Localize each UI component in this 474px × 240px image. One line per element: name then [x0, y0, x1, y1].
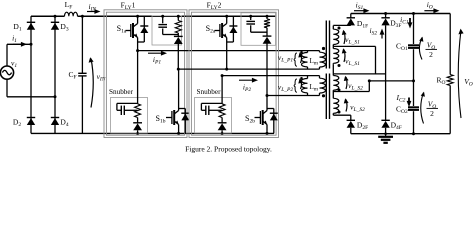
core T1	[326, 21, 329, 69]
arrow iP2	[239, 78, 258, 83]
diode D3	[51, 22, 59, 30]
diode D2	[27, 118, 35, 126]
label iP1	[153, 55, 161, 66]
node dot midpoint cap	[412, 79, 415, 82]
box FLY2 outer	[189, 10, 279, 138]
diode snubber1t	[174, 36, 183, 44]
node dot W3 polarity	[338, 89, 341, 92]
transistor S1a	[126, 16, 138, 50]
wire A S1a emitter to primary1	[138, 50, 320, 52]
label is1	[356, 1, 364, 12]
wire bridge left column	[30, 16, 32, 133]
node dot ground	[384, 132, 387, 135]
inductor LF	[65, 12, 78, 16]
inductor Lm1	[302, 51, 308, 70]
wire bottom rail	[31, 132, 274, 135]
label D4	[60, 118, 68, 129]
node dot Lm1 top	[300, 51, 303, 54]
label iC1	[400, 15, 409, 26]
label FLY1	[121, 1, 136, 12]
box snubber FLY2 top	[241, 13, 276, 46]
label Lm1	[310, 57, 319, 67]
label RO	[437, 76, 446, 87]
label D2	[13, 118, 21, 129]
arc vL_S1 top	[342, 30, 347, 44]
arc vL_S2 bot	[344, 98, 349, 111]
label D4F	[391, 120, 402, 131]
label S1a	[117, 24, 127, 35]
label S1b	[156, 114, 166, 125]
box snubber FLY1 top	[152, 16, 182, 45]
capacitor snubber2b	[201, 103, 222, 115]
capacitor snubber1t	[158, 15, 167, 35]
winding P2	[320, 76, 326, 96]
node dot P1 polarity	[322, 47, 325, 50]
diode D1	[27, 22, 35, 30]
label Vo2 bottom	[427, 100, 439, 119]
arrow is2	[380, 29, 385, 39]
label D3F	[390, 18, 401, 29]
caption	[185, 144, 272, 153]
box FLY1 inner	[106, 12, 184, 135]
wire CO2 column	[413, 81, 415, 134]
node dot CO2 bottom	[412, 132, 415, 135]
diode S1a antiparallel	[138, 16, 149, 42]
label VO	[464, 77, 473, 88]
capacitor snubber1b	[117, 103, 138, 115]
winding W2 vL_S1	[333, 46, 339, 64]
arc vL_P2	[298, 78, 303, 89]
label i1	[12, 34, 17, 45]
node dot rail at D3	[54, 15, 57, 18]
wire D primary2 bottom	[267, 95, 320, 97]
label IC2	[396, 93, 406, 104]
node dot Lm2 top	[300, 77, 303, 80]
ground	[378, 134, 393, 143]
label is2	[370, 26, 378, 37]
svg-text:2: 2	[430, 109, 434, 118]
arrow iC1	[408, 18, 413, 29]
resistor RO	[447, 75, 453, 86]
node dot S2a emitter wireB	[225, 68, 228, 71]
arrow i1	[13, 42, 27, 47]
box snubber FLY1 bottom	[111, 98, 148, 134]
node dot W1 polarity	[338, 27, 341, 30]
arc VO	[458, 29, 463, 118]
resistor snubber2b	[219, 104, 225, 118]
wire W1W2 tap	[333, 46, 375, 74]
diode S1b antiparallel	[179, 109, 190, 134]
label CO2	[396, 104, 408, 115]
svg-text:2: 2	[429, 50, 433, 59]
arc Vo2 top	[419, 37, 423, 60]
node dot rail at CF	[81, 15, 84, 18]
diode snubber1b	[133, 123, 142, 131]
wire snubber1b center column	[137, 51, 139, 134]
node dot S2a collector rail	[225, 15, 228, 18]
resistor snubber2t	[264, 15, 270, 36]
diode D3F	[381, 14, 389, 26]
wire snubber2b center column	[221, 76, 223, 134]
label vL_S1 bot	[345, 57, 360, 68]
ac source v1	[0, 66, 13, 79]
wire midpoint	[369, 80, 413, 82]
core T2	[326, 74, 329, 120]
node dot S1a collector rail	[136, 15, 139, 18]
label vIN	[97, 72, 106, 83]
wire CO1 column	[413, 14, 415, 81]
label Lm2	[310, 83, 319, 93]
label Snubber2	[197, 88, 222, 96]
wire output bottom	[351, 86, 450, 134]
svg-text:Snubber: Snubber	[109, 88, 134, 96]
wire snubber1t diode to wireB	[177, 44, 179, 70]
wire W3W4 tap to midpoint	[333, 81, 369, 92]
inductor Lm2	[302, 76, 308, 96]
wire top rail	[31, 15, 276, 17]
arrow iP1	[148, 51, 167, 56]
winding W3 vL_S2	[333, 74, 339, 92]
node dot W2 polarity	[338, 64, 341, 67]
arc vL_S2 top	[344, 76, 349, 89]
resistor snubber1t	[175, 15, 181, 37]
wire W4 bottom to D2F	[333, 115, 351, 120]
diode snubber2t	[263, 36, 272, 44]
label CO1	[396, 41, 408, 52]
node dot P2 polarity	[322, 94, 325, 97]
label iP2	[243, 83, 251, 94]
wire C primary2 top	[222, 75, 319, 77]
diode D4F	[381, 120, 389, 133]
label io	[427, 0, 433, 11]
label LF	[65, 0, 73, 11]
diode S2b antiparallel	[267, 109, 278, 134]
node dot wireD left	[266, 94, 269, 97]
node dot wireC left	[221, 74, 224, 77]
wire snubber2t link	[251, 31, 267, 33]
label D2F	[357, 120, 368, 131]
label S2a	[206, 24, 216, 35]
svg-text:Snubber: Snubber	[197, 88, 222, 96]
label D1	[13, 22, 21, 33]
wire ac top to node A	[7, 44, 31, 66]
winding W4 vL_S2	[333, 92, 339, 116]
label vL_P1	[278, 53, 294, 64]
node dot CO1 rail	[412, 12, 415, 15]
brace vL_P2	[294, 79, 297, 92]
box FLY1 outer	[104, 10, 187, 138]
transistor S2a	[215, 16, 227, 69]
arrow io	[424, 8, 439, 13]
transistor S1b	[166, 69, 179, 133]
wire B primary1 bottom	[178, 68, 319, 70]
label vL_S2 bot	[350, 103, 365, 114]
label Vo2 top	[426, 41, 438, 60]
winding P1	[320, 51, 326, 70]
label vL_S1 top	[345, 35, 360, 46]
label vL_P2	[278, 83, 294, 94]
diode D2F	[347, 120, 355, 133]
capacitor CF	[78, 73, 86, 76]
node dot S1a emitter wireA	[136, 49, 139, 52]
node dot midpoint left	[368, 79, 371, 82]
diode S2a antiparallel	[227, 16, 238, 42]
capacitor snubber2t	[246, 15, 255, 33]
box snubber FLY2 bottom	[195, 98, 232, 134]
wire W1 top to D1F	[333, 24, 351, 26]
brace vL_P1	[294, 53, 297, 66]
label D3	[60, 22, 68, 33]
label FLY2	[207, 1, 222, 12]
arc vIN	[89, 57, 94, 107]
winding W1 vL_S1	[333, 26, 339, 47]
arc Vo2 bottom	[421, 92, 425, 124]
arc vL_S1 bot	[342, 48, 347, 62]
diode D1F	[347, 14, 355, 26]
wire snubber2t diode to wireD	[266, 43, 268, 95]
box FLY2 inner	[191, 12, 276, 135]
node A dot	[30, 43, 33, 46]
wire ac bottom to node B	[7, 79, 55, 97]
wire CF column	[81, 16, 83, 133]
diode D4	[51, 118, 59, 126]
wire output top rail	[351, 14, 450, 75]
arrow is1	[354, 8, 370, 13]
node dot wireB left	[177, 68, 180, 71]
node B dot	[54, 95, 57, 98]
label S2b	[245, 114, 255, 125]
label D1F	[357, 19, 368, 30]
label vL_S2 top	[348, 81, 363, 92]
label CF	[68, 70, 76, 81]
svg-text:Figure 2. Proposed topology.: Figure 2. Proposed topology.	[185, 144, 272, 153]
label Snubber1	[109, 88, 134, 96]
label v1	[11, 58, 17, 69]
node dot W4 polarity	[338, 111, 341, 114]
label iIN	[89, 2, 97, 13]
wire D3F anode column	[385, 25, 387, 120]
transistor S2b	[255, 96, 268, 134]
arc vL_P1	[298, 52, 303, 63]
capacitor CO2	[408, 107, 419, 110]
arrow iIN	[87, 9, 101, 14]
wire snubber1t link	[163, 34, 179, 36]
wire bridge right column	[54, 16, 56, 133]
resistor snubber1b	[135, 104, 141, 118]
capacitor CO1	[408, 45, 419, 48]
diode snubber2b	[218, 123, 227, 131]
arrow IC2	[407, 98, 412, 108]
node dot D3F rail	[384, 12, 387, 15]
wire W2 bottom to AC node	[333, 65, 385, 74]
